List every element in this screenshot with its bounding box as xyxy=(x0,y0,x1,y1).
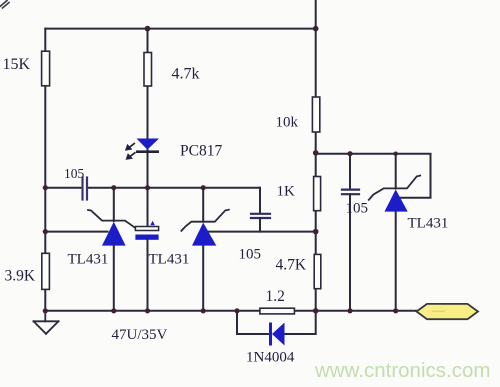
resistor 4.7K xyxy=(314,254,321,288)
svg-text:15K: 15K xyxy=(3,56,31,73)
wire mid horizontal left part xyxy=(45,187,81,189)
svg-text:4.7K: 4.7K xyxy=(276,257,307,274)
connector output xyxy=(417,304,479,319)
resistor 15K xyxy=(42,51,50,86)
wire diode loop xyxy=(237,311,269,334)
capacitor 47U/35V electrolytic xyxy=(135,188,158,311)
TL431 right anode wire xyxy=(395,212,397,311)
wire right main rail xyxy=(315,0,317,311)
svg-text:1K: 1K xyxy=(277,184,296,200)
TL431 middle: cathode wire xyxy=(202,188,204,222)
wire cap branch down (x=260) xyxy=(259,188,261,213)
wire cap to ref rail xyxy=(259,218,261,232)
svg-text:1.2: 1.2 xyxy=(266,288,285,305)
diode 1N4004 xyxy=(269,323,285,346)
TL431 left zigzag xyxy=(88,210,136,228)
svg-text:TL431: TL431 xyxy=(68,252,109,268)
svg-text:105: 105 xyxy=(346,201,369,217)
TL431 middle triangle xyxy=(192,223,216,246)
TL431 right zigzag xyxy=(369,176,420,200)
TL431 right triangle xyxy=(385,189,408,211)
wire top horizontal xyxy=(45,28,315,30)
PC817 light arrows xyxy=(126,144,135,159)
capacitor 105 (left, series) xyxy=(83,178,88,200)
capacitor 105 (right) xyxy=(342,190,359,195)
wire bottom horizontal xyxy=(45,310,417,312)
wire right box top xyxy=(316,154,431,198)
svg-text:47U/35V: 47U/35V xyxy=(112,327,168,343)
svg-text:www.cntronics.com: www.cntronics.com xyxy=(314,359,490,382)
TL431 middle anode wire xyxy=(202,246,204,311)
svg-text:3.9K: 3.9K xyxy=(5,268,36,285)
wire left rail xyxy=(44,29,46,311)
svg-text:4.7k: 4.7k xyxy=(172,66,200,83)
capacitor 105 right branch wire upper xyxy=(349,154,351,189)
svg-text:1N4004: 1N4004 xyxy=(246,350,295,366)
junction node dots xyxy=(43,26,399,314)
svg-text:TL431: TL431 xyxy=(408,216,449,232)
svg-text:105: 105 xyxy=(239,247,262,263)
optocoupler PC817 LED xyxy=(136,139,159,154)
wire mid horizontal right part xyxy=(89,187,261,189)
ground xyxy=(34,311,59,334)
TL431 right: cathode wire xyxy=(395,154,397,189)
resistor 4.7k xyxy=(144,53,152,87)
svg-text:PC817: PC817 xyxy=(180,143,222,160)
TL431 left triangle xyxy=(102,222,126,246)
TL431 middle zigzag xyxy=(181,210,228,231)
capacitor 105 right branch wire lower xyxy=(349,194,351,311)
wire ref horizontal (TL431 mid to rail) xyxy=(207,231,315,233)
resistor 3.9K xyxy=(42,253,50,289)
svg-text:105: 105 xyxy=(64,166,85,181)
svg-text:TL431: TL431 xyxy=(149,252,190,268)
corner mark xyxy=(0,1,9,9)
resistor 1.2 xyxy=(260,308,295,314)
wire left ref horizontal xyxy=(45,231,107,233)
resistor 10k xyxy=(312,97,319,132)
TL431 left anode wire xyxy=(113,246,115,311)
TL431 left: cathode wire xyxy=(113,188,115,221)
resistor 1K xyxy=(314,177,321,211)
capacitor 105 (middle) xyxy=(251,214,270,218)
wire middle branch (4.7k / PC817) xyxy=(147,29,149,188)
svg-text:10k: 10k xyxy=(276,115,299,131)
